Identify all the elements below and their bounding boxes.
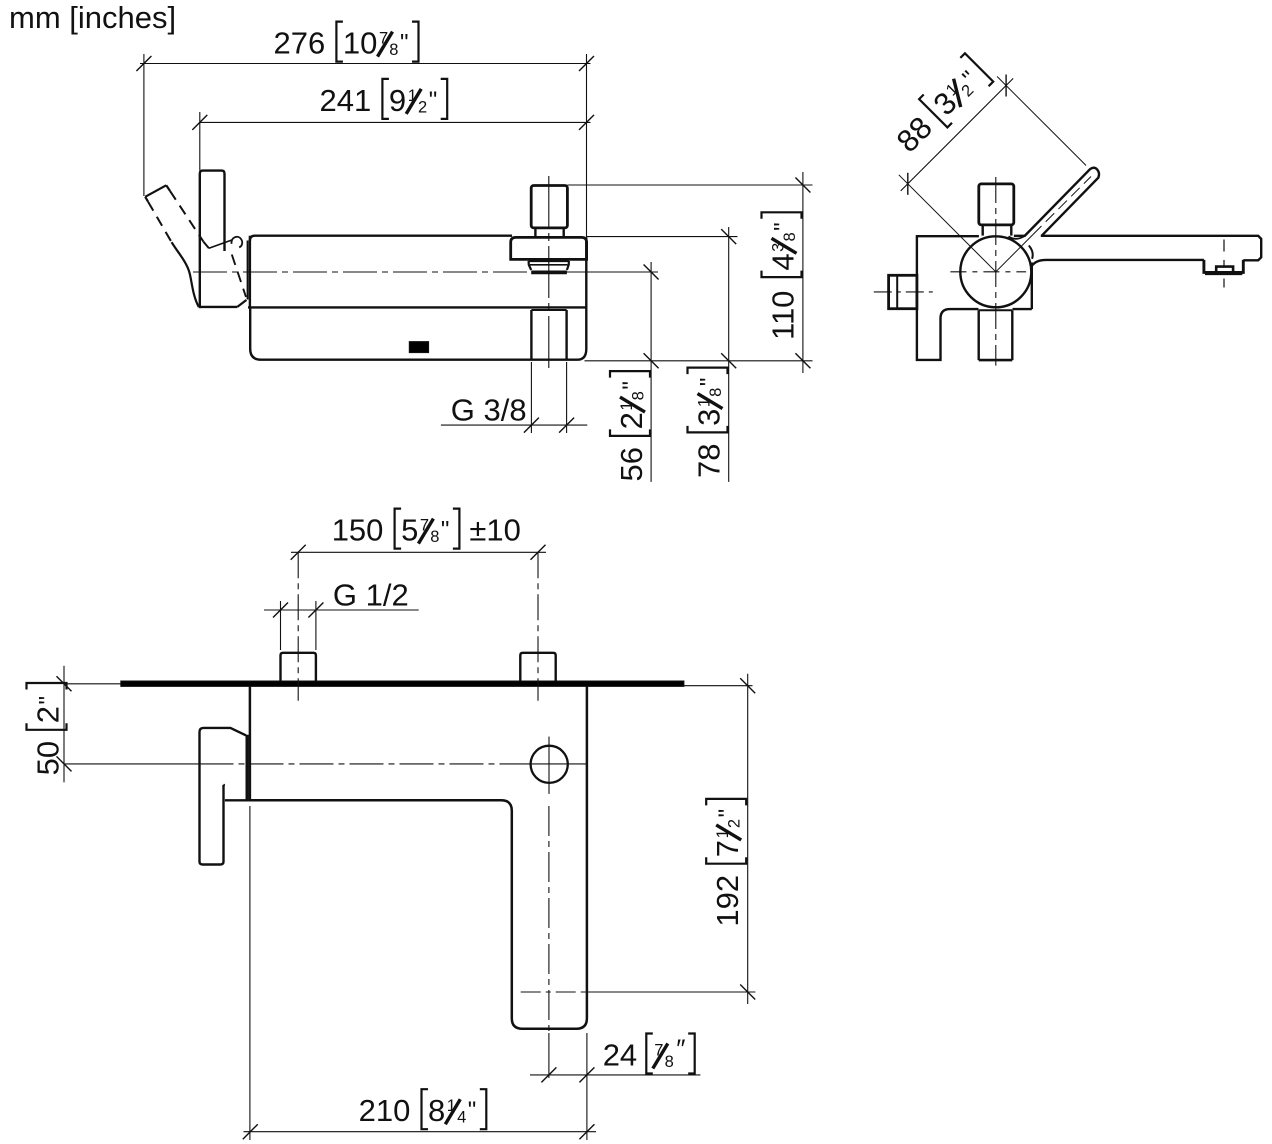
dim 110 line xyxy=(802,172,804,373)
svg-text:": " xyxy=(400,30,409,57)
fitting stem xyxy=(534,228,536,238)
svg-text:8: 8 xyxy=(707,388,725,397)
svg-text:8: 8 xyxy=(781,232,799,241)
aerator notch xyxy=(1216,267,1233,273)
svg-text:210: 210 xyxy=(359,1093,411,1128)
circle centerline h xyxy=(950,271,1026,273)
lever lower silhouette xyxy=(172,242,199,307)
dim 210 line xyxy=(244,1131,597,1133)
svg-text:2: 2 xyxy=(418,98,427,116)
centerline horizontal xyxy=(193,271,568,273)
lever end cap xyxy=(145,185,166,197)
right connector centerline xyxy=(537,552,539,700)
handle base bottom xyxy=(224,784,225,786)
dim 78 label xyxy=(688,368,728,478)
body outline bottom view xyxy=(250,686,587,1028)
svg-text:5: 5 xyxy=(401,513,418,548)
dim 24 line xyxy=(530,1074,700,1076)
top fitting front xyxy=(979,184,1014,225)
ext bottom right xyxy=(585,360,813,362)
pipe below front xyxy=(978,310,980,360)
dim 192 ext top xyxy=(682,685,752,687)
svg-text:4: 4 xyxy=(766,253,801,270)
port circle xyxy=(531,746,568,783)
dim 78 ext top xyxy=(587,236,738,238)
main centerline xyxy=(64,763,200,765)
valve circle xyxy=(960,236,1031,307)
svg-text:": " xyxy=(618,381,645,390)
left connector xyxy=(281,653,316,681)
dim 88 label xyxy=(887,53,993,159)
dim 50 ext top xyxy=(64,683,121,685)
svg-text:192: 192 xyxy=(710,875,745,927)
dim 241 ext left xyxy=(199,112,201,171)
dim 88 ext from center xyxy=(899,175,996,272)
svg-text:": " xyxy=(770,222,797,231)
left fitting xyxy=(889,275,917,308)
svg-text:″: ″ xyxy=(676,1034,685,1064)
lever upper edge xyxy=(166,185,170,191)
dim 150 line xyxy=(291,551,546,553)
svg-text:2: 2 xyxy=(614,412,649,429)
svg-text:3: 3 xyxy=(692,409,727,426)
svg-text:9: 9 xyxy=(389,83,406,118)
svg-text:276: 276 xyxy=(274,26,326,61)
lever link line xyxy=(209,240,233,249)
aerator xyxy=(1204,260,1243,273)
flange xyxy=(511,237,587,259)
svg-text:8: 8 xyxy=(630,391,648,400)
circle centerline v xyxy=(995,177,997,366)
barrel end face xyxy=(247,241,249,300)
G3/8 line xyxy=(441,424,587,426)
dim 56 line xyxy=(650,262,652,482)
svg-text:150: 150 xyxy=(332,513,384,548)
handle grip xyxy=(200,728,247,865)
leg horizontal centerline xyxy=(521,991,587,993)
svg-text:2: 2 xyxy=(726,819,744,828)
dim 110 ext top xyxy=(567,184,812,186)
svg-text:110: 110 xyxy=(766,291,801,340)
svg-text:24: 24 xyxy=(603,1038,637,1073)
aerator centerline xyxy=(1223,240,1225,252)
nut xyxy=(529,261,569,270)
dim 241 line xyxy=(200,121,591,123)
handle base edge xyxy=(245,735,248,800)
lever hub hidden edge xyxy=(232,255,246,298)
svg-text:": " xyxy=(468,1097,477,1124)
G1/2 ext lines xyxy=(280,601,282,650)
lever saddle xyxy=(1009,236,1025,239)
shower fitting xyxy=(531,186,567,228)
dim 110 label xyxy=(762,212,802,340)
handle plate bottom xyxy=(199,306,238,308)
svg-text:": " xyxy=(429,87,438,114)
svg-text:8: 8 xyxy=(428,1093,445,1128)
lever axis line xyxy=(996,235,1033,272)
dim 192 line xyxy=(747,674,749,1004)
dim 56 label xyxy=(610,371,650,481)
dim 276/241 ext right xyxy=(586,54,588,237)
svg-text:": " xyxy=(441,517,450,544)
top fitting stem xyxy=(982,226,984,236)
dim 78 line xyxy=(728,227,730,482)
centerline vertical xyxy=(548,176,550,370)
lever lower edge xyxy=(145,197,148,202)
handle plate xyxy=(199,171,225,307)
svg-text:10: 10 xyxy=(343,26,377,61)
svg-text:": " xyxy=(35,696,62,705)
dim 210 ext left xyxy=(249,806,251,1140)
dim 192 label xyxy=(706,799,746,927)
barrel lower outline xyxy=(250,237,586,359)
svg-text:50: 50 xyxy=(31,741,66,775)
svg-text:2: 2 xyxy=(31,706,66,723)
svg-text:78: 78 xyxy=(692,444,727,478)
svg-text:G 3/8: G 3/8 xyxy=(451,393,527,428)
pipe xyxy=(530,310,532,360)
leg centerline xyxy=(548,806,550,1033)
left connector centerline xyxy=(297,552,299,700)
svg-text:241: 241 xyxy=(320,83,372,118)
spout xyxy=(1014,236,1261,266)
svg-text:": " xyxy=(696,378,723,387)
right connector xyxy=(520,653,555,681)
svg-text:8: 8 xyxy=(665,1053,674,1071)
dim 50 label xyxy=(27,683,67,775)
G1/2 line xyxy=(264,609,419,611)
wall plate bar xyxy=(121,681,684,686)
dim 88 line xyxy=(901,78,1014,190)
G3/8 ext lines xyxy=(530,362,532,433)
left fitting centerline xyxy=(874,291,934,293)
valve body block xyxy=(917,236,979,360)
dim 276 ext left xyxy=(143,54,145,196)
dim 210 ext right xyxy=(586,1033,588,1140)
logo mark xyxy=(409,342,428,353)
port crosshair xyxy=(548,737,550,794)
dim 88 ext from tip xyxy=(997,77,1086,166)
svg-text:4: 4 xyxy=(457,1109,466,1127)
barrel bottom edge upper xyxy=(248,306,586,308)
dim 276 line xyxy=(140,63,591,65)
svg-text:mm [inches]: mm [inches] xyxy=(9,0,176,35)
body bottom right xyxy=(1013,308,1032,310)
spout socket arc xyxy=(1029,246,1033,259)
svg-text:G 1/2: G 1/2 xyxy=(333,577,409,612)
dim 50 line xyxy=(63,666,65,783)
svg-text:±10: ±10 xyxy=(469,513,521,548)
lever shaft xyxy=(1025,168,1099,236)
lever hub curl xyxy=(231,237,242,248)
barrel top edge xyxy=(250,236,512,241)
svg-text:7: 7 xyxy=(710,840,745,857)
svg-text:56: 56 xyxy=(614,447,649,481)
svg-text:": " xyxy=(714,809,741,818)
svg-text:8: 8 xyxy=(430,528,439,546)
svg-text:8: 8 xyxy=(389,41,398,59)
